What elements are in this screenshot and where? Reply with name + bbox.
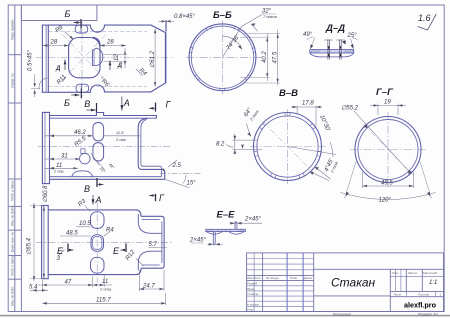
svg-text:2 отв.: 2 отв. (99, 287, 112, 292)
bottom recess hump (72, 171, 93, 177)
svg-text:115.7: 115.7 (96, 298, 111, 304)
header row lines (247, 274, 314, 276)
10.5 dim (76, 226, 91, 228)
svg-text:2.5: 2.5 (172, 163, 182, 169)
rim notches (7 slots) (254, 113, 321, 179)
Д-Д notch tick pair 2 (336, 40, 345, 60)
Б-Б rim notches (190, 26, 256, 90)
label А above view3 (92, 195, 94, 205)
В-В centerlines (250, 146, 326, 148)
svg-text:Е–Е: Е–Е (217, 210, 236, 221)
svg-text:0.8×45°: 0.8×45° (174, 14, 196, 20)
view2 centerline horizontal (38, 145, 170, 147)
svg-text:Масштаб: Масштаб (423, 271, 437, 275)
change-table column: Дата (302, 253, 304, 312)
change-table column: Подп (286, 253, 288, 312)
wall verticals (137, 128, 139, 164)
material cell bottom (314, 295, 391, 297)
svg-text:17.8: 17.8 (302, 101, 314, 107)
Г-Г inner circle (358, 120, 418, 180)
wall bend outer (138, 118, 148, 128)
svg-text:Масса: Масса (408, 271, 417, 275)
svg-text:31: 31 (61, 154, 68, 160)
svg-text:Стакан: Стакан (331, 276, 376, 290)
Е-Е 2x45 bottom dim (208, 243, 223, 245)
svg-text:5.4: 5.4 (29, 284, 38, 290)
svg-text:24.7: 24.7 (142, 284, 155, 290)
rim lip top inner (50, 117, 157, 119)
fillet R12 bottom (138, 251, 162, 270)
name cell top (314, 268, 444, 270)
title block outline (247, 253, 444, 312)
svg-text:2×45°: 2×45° (244, 217, 262, 223)
svg-text:2×45°: 2×45° (189, 238, 207, 244)
Д-Д 49deg leader (307, 37, 315, 49)
svg-text:Д–Д: Д–Д (325, 23, 345, 34)
5.7 dim (149, 247, 168, 249)
Б-Б inner circle (191, 26, 253, 88)
svg-text:Т.контр.: Т.контр. (247, 292, 259, 296)
top slot (91, 212, 105, 229)
svg-text:Подп. и дата: Подп. и дата (11, 181, 15, 201)
svg-text:Б: Б (65, 9, 71, 19)
svg-text:40.2: 40.2 (262, 51, 268, 63)
top-left stamp box (21, 5, 97, 21)
center hole slot (91, 235, 104, 252)
right section divider (389, 269, 391, 311)
radial leader 32deg (223, 15, 263, 58)
svg-text:5.7: 5.7 (149, 242, 158, 248)
svg-text:В: В (84, 99, 90, 109)
48.5 leader (60, 235, 91, 237)
17.8 dim (227, 106, 337, 181)
bottom dim row 2: 5.4 and 24.7 (30, 289, 48, 291)
angle arc 74deg36 (223, 36, 243, 49)
Лист/Листов row (390, 290, 443, 292)
svg-text:Д: Д (117, 63, 123, 69)
left margin vertical texts (11, 19, 15, 306)
svg-text:0.5×45°: 0.5×45° (28, 49, 34, 71)
Е-Е 2x45 top dim (230, 222, 263, 224)
Лит subcolumns (395, 269, 397, 291)
svg-text:Г–Г: Г–Г (376, 87, 394, 98)
bottom dim row 3: 115.7 (42, 302, 165, 304)
svg-text:Лист: Лист (393, 293, 402, 297)
R3 leader (85, 205, 91, 211)
side slot D-pocket (92, 48, 102, 65)
svg-text:В: В (84, 184, 90, 194)
Д-Д 25deg leader (351, 38, 358, 49)
inner top line of right boss (142, 220, 160, 266)
svg-text:46.2: 46.2 (74, 130, 86, 136)
dim lines 40.2 47.5 (240, 30, 280, 86)
svg-text:Изм.Лист: Изм.Лист (247, 276, 262, 280)
Е-Е right bowl (229, 232, 245, 235)
svg-text:Утв.: Утв. (247, 308, 254, 312)
dim lines view1 (43, 20, 174, 87)
bottom edge lines (50, 176, 162, 178)
view2 left cap (42, 112, 49, 183)
dim arrows view1 (43, 20, 171, 87)
svg-text:А: А (123, 98, 130, 108)
19 dim top (370, 104, 406, 116)
svg-text:Е: Е (113, 246, 120, 256)
Б-Б centerlines (186, 56, 261, 58)
upper change rows (247, 258, 314, 260)
svg-text:Взам. инв. №: Взам. инв. № (11, 232, 15, 252)
svg-text:∅60.8: ∅60.8 (42, 185, 49, 203)
svg-text:Подп.: Подп. (290, 276, 298, 280)
left margin box separators (8, 54, 21, 56)
change-table column: Лист (253, 253, 255, 312)
view3 dim arrows (32, 203, 165, 304)
view2 dimension lines (45, 136, 203, 188)
svg-text:№ докум.: № докум. (266, 276, 279, 280)
svg-text:Подп. и дата: Подп. и дата (11, 256, 15, 276)
body outline top (48, 25, 165, 92)
dia 65.4 dim line (33, 203, 35, 281)
signature rows (247, 285, 314, 287)
svg-text:1.6: 1.6 (418, 13, 431, 23)
svg-text:Разраб.: Разраб. (247, 282, 258, 286)
designation cell left edge (313, 253, 315, 312)
svg-text:Дата: Дата (303, 276, 312, 280)
thick R6 corner arc on big slot (93, 38, 100, 46)
inner right line (161, 222, 163, 264)
view1 diagonal centerlines (63, 35, 107, 81)
svg-text:7 пазов: 7 пазов (263, 14, 277, 19)
svg-text:28: 28 (106, 40, 114, 46)
svg-text:2 паз.: 2 паз. (53, 169, 65, 174)
Д-Д lower dish curve (310, 53, 354, 57)
3 leader (58, 250, 65, 257)
Лит/Масса/Масштаб header bottom (390, 275, 443, 277)
fillet R12 top (138, 214, 162, 233)
svg-text:Б: Б (64, 98, 70, 108)
flange corner arc (39, 78, 47, 90)
view3 centerline horizontal (36, 241, 172, 243)
svg-text:10.5: 10.5 (79, 221, 91, 227)
svg-text:Инв. № подл.: Инв. № подл. (11, 286, 15, 306)
svg-text:alexfl.pro: alexfl.pro (404, 301, 437, 310)
bottom slot (91, 257, 105, 273)
dia 55.2 leader (354, 111, 410, 172)
Е-Е bar hatch (207, 229, 245, 231)
svg-text:∅55.2: ∅55.2 (341, 105, 359, 112)
Д-Д bar profile (310, 50, 354, 53)
svg-text:120°: 120° (379, 198, 392, 204)
dia 60.8 dim line (43, 206, 45, 279)
upper central slot (93, 123, 104, 141)
view3 left flange (42, 206, 49, 279)
svg-text:11.8: 11.8 (116, 130, 124, 135)
svg-text:11: 11 (102, 279, 108, 285)
svg-text:Е: Е (57, 246, 64, 256)
svg-text:∅61.2: ∅61.2 (149, 50, 156, 68)
label А with view arrow (121, 97, 123, 111)
svg-text:47.5: 47.5 (272, 51, 278, 63)
Д-Д notch tick pair 1 (324, 40, 333, 60)
49.5 dim bottom (363, 172, 414, 188)
svg-text:В–В: В–В (279, 88, 298, 99)
svg-text:Б–Б: Б–Б (213, 10, 232, 21)
bottom dim row 1: 47 and 11 (38, 284, 112, 286)
bottom small slot (76, 84, 89, 92)
svg-text:∅65.4: ∅65.4 (26, 237, 33, 255)
svg-text:R4: R4 (106, 228, 114, 234)
svg-text:49°: 49° (303, 32, 313, 38)
svg-text:2 паз.: 2 паз. (115, 137, 127, 142)
page bottom shadow line (0, 315, 450, 317)
view3 body outline (48, 210, 164, 275)
svg-text:12: 12 (114, 54, 120, 61)
left margin column line 2 (inner frame left) (20, 5, 22, 312)
svg-text:Д: Д (55, 66, 61, 72)
svg-text:8.2: 8.2 (216, 142, 225, 148)
svg-text:19: 19 (384, 100, 391, 106)
svg-text:Листов: Листов (417, 293, 429, 297)
Г-Г outer circle (355, 117, 421, 183)
top small slot (75, 25, 88, 33)
Е-Е left pin (down) (213, 232, 215, 245)
svg-text:25°: 25° (347, 33, 358, 39)
R4 leader (104, 232, 110, 237)
Д-Д end hatch right (344, 50, 354, 53)
view1 centerline horizontal (36, 57, 174, 59)
R12 leader (136, 259, 144, 267)
view3 dim lines (30, 203, 167, 305)
bottom step outer (138, 165, 165, 180)
view1 hidden edge lines (48, 30, 147, 32)
svg-text:Перв. примен.: Перв. примен. (11, 19, 15, 40)
Е-Е left bowl (206, 232, 222, 235)
svg-text:Лит.: Лит. (391, 271, 399, 275)
Е-Е right pin (up) (235, 222, 237, 230)
120deg angle (341, 193, 436, 200)
svg-text:47: 47 (65, 279, 72, 285)
В-В outer circle (254, 113, 322, 181)
small boss circle R5.5 (80, 153, 91, 164)
Г-Г centerlines (350, 149, 426, 151)
svg-text:Справ. №: Справ. № (11, 73, 15, 88)
left flange (42, 25, 48, 92)
svg-text:Пров.: Пров. (247, 287, 255, 291)
Б-Б outer circle (189, 24, 256, 91)
svg-text:Копировал: Копировал (333, 312, 351, 316)
left margin column line 1 (14, 5, 16, 312)
bottom step inner (141, 165, 162, 177)
svg-text:48.5: 48.5 (66, 231, 78, 237)
view3 centerline vertical (96, 202, 98, 283)
В-В inner circle (257, 116, 318, 177)
tiny rect notch (81, 149, 85, 154)
svg-text:Н.контр.: Н.контр. (247, 302, 260, 306)
svg-text:49.5: 49.5 (381, 181, 393, 187)
rim lip top outer (50, 113, 157, 119)
svg-text:15°: 15° (187, 181, 197, 187)
svg-text:Формат A3: Формат A3 (418, 312, 438, 316)
view1 centerline vertical (81, 20, 83, 97)
view2 body profile (50, 113, 165, 180)
Д-Д end hatch left (311, 50, 321, 53)
title block texts (247, 271, 442, 312)
Е-Е bar (206, 229, 246, 231)
lower central slot (93, 143, 104, 161)
svg-text:1:1: 1:1 (429, 280, 437, 286)
section label row between view1 and view2 (64, 89, 172, 113)
svg-text:Инв. № дубл.: Инв. № дубл. (11, 206, 15, 226)
wall bend inner (141, 120, 147, 129)
change-table column: № докум (262, 253, 264, 312)
big central slot (69, 38, 100, 78)
svg-text:А: А (95, 195, 102, 205)
svg-text:28: 28 (50, 40, 58, 46)
